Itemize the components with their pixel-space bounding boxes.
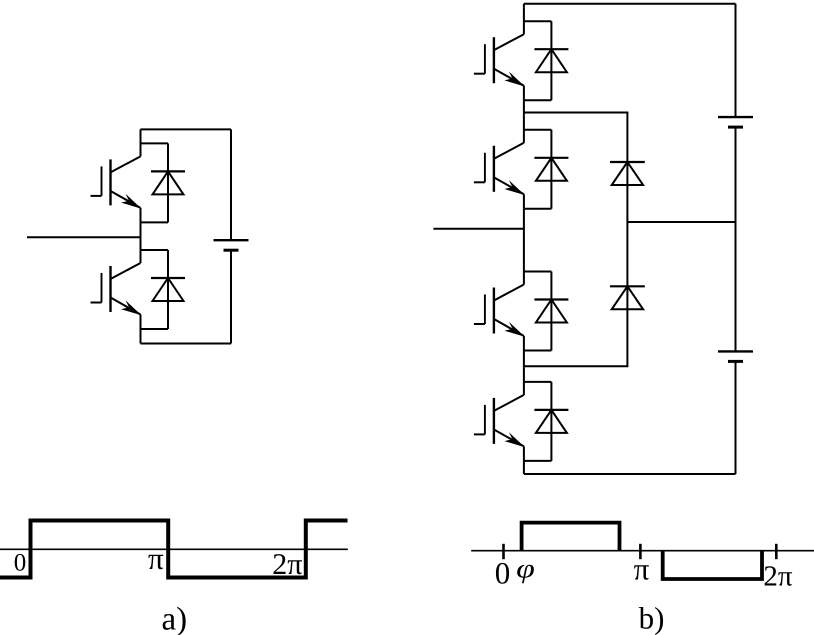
- svg-text:π: π: [634, 551, 650, 586]
- svg-text:b): b): [639, 600, 665, 635]
- svg-text:0: 0: [495, 555, 511, 590]
- svg-text:2π: 2π: [763, 561, 793, 593]
- svg-text:2π: 2π: [272, 548, 302, 581]
- svg-text:0: 0: [14, 550, 27, 577]
- svg-text:φ: φ: [516, 554, 535, 584]
- svg-text:a): a): [161, 601, 187, 635]
- svg-text:π: π: [148, 541, 164, 576]
